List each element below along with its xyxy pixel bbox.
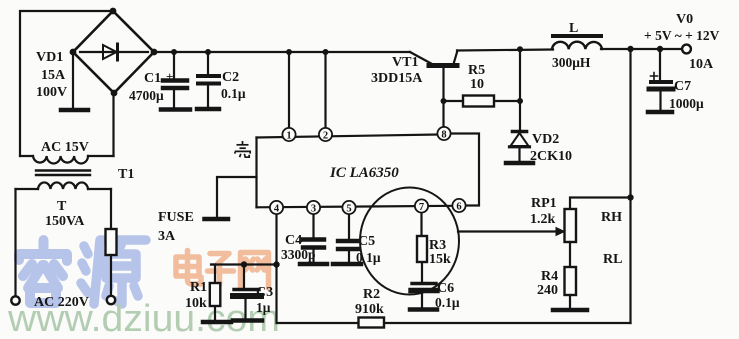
IC U1 box top edge	[257, 135, 438, 138]
svg-text:300μH: 300μH	[552, 55, 591, 70]
potentiometer RP1 body	[565, 209, 577, 242]
capacitor C1 plates	[163, 81, 187, 89]
svg-text:3A: 3A	[158, 229, 176, 244]
node pin1 tap	[286, 49, 292, 55]
transformer T1 core lines	[36, 171, 90, 176]
wire R1/C3 node to pin4 line	[211, 263, 277, 265]
watermark char ZI (salmon)	[208, 254, 234, 287]
node C2 tap	[205, 49, 211, 55]
node R5 right lower junction	[517, 98, 523, 104]
ground below bridge	[61, 108, 88, 113]
svg-text:VT1: VT1	[392, 55, 418, 70]
resistor R3 body	[417, 236, 427, 262]
node C1 tap	[171, 49, 177, 55]
transistor VT1 base bar	[429, 63, 457, 68]
svg-text:T: T	[57, 199, 67, 214]
svg-text:3300p: 3300p	[281, 247, 316, 262]
svg-text:240: 240	[537, 283, 558, 298]
resistor R1 body	[210, 283, 221, 306]
resistor R4 body	[565, 267, 577, 295]
svg-text:C5: C5	[358, 234, 375, 249]
wire pin 4 down to bottom rail	[275, 214, 277, 323]
node base R5 junction	[441, 98, 447, 104]
svg-text:150VA: 150VA	[45, 214, 85, 229]
svg-text:4700μ: 4700μ	[129, 88, 164, 103]
diode inside bridge VD1	[80, 44, 148, 60]
svg-text:L: L	[569, 21, 578, 36]
capacitor C4 leads	[312, 214, 314, 262]
node pin4 wire junction	[273, 261, 279, 267]
capacitor C7 plates	[651, 80, 671, 84]
fuse body in AC line	[106, 229, 117, 255]
svg-text:R1: R1	[190, 280, 207, 295]
svg-text:+ 5V ~ + 12V: + 5V ~ + 12V	[644, 28, 720, 43]
svg-text:T1: T1	[118, 167, 134, 182]
capacitor C6 plates	[412, 282, 436, 285]
svg-text:FUSE: FUSE	[158, 210, 194, 225]
wire bridge bottom vertex to secondary right	[112, 93, 114, 156]
node bridge left vertex	[70, 49, 77, 56]
svg-text:10: 10	[470, 77, 484, 92]
transformer T1 secondary winding	[33, 156, 88, 164]
transistor VT1 collector lead	[410, 52, 432, 64]
WATERMARK	[7, 240, 280, 339]
resistor R2 body	[359, 318, 385, 328]
svg-text:1000μ: 1000μ	[669, 96, 704, 111]
svg-text:R3: R3	[429, 238, 446, 253]
svg-text:0.1μ: 0.1μ	[435, 295, 460, 310]
ground below C5	[333, 262, 361, 267]
svg-text:10k: 10k	[185, 296, 207, 311]
svg-text:3: 3	[311, 203, 316, 214]
bridge rectifier VD1 diamond	[73, 11, 154, 93]
wire main rail right of VT1	[457, 49, 686, 51]
ground below C3	[233, 318, 262, 323]
terminal AC left	[11, 296, 19, 304]
node bridge right vertex	[151, 49, 158, 56]
svg-text:15k: 15k	[429, 252, 451, 267]
resistor R5 body	[463, 96, 494, 107]
wire primary left lead	[14, 189, 16, 296]
wire RP1 to R4	[569, 242, 571, 267]
node C7 tap	[657, 46, 663, 52]
capacitor C2 plates	[198, 76, 219, 84]
ground below C1	[161, 107, 190, 112]
svg-text:2: 2	[323, 130, 328, 141]
RP1 wiper arrow	[556, 228, 565, 236]
resistor R1 leads	[212, 265, 215, 321]
svg-text:AC 220V: AC 220V	[34, 295, 89, 310]
wire bridge left vertex to ground	[72, 52, 74, 108]
ground below VD2	[506, 161, 533, 166]
capacitor C1 leads	[173, 52, 175, 107]
watermark char RONG (blue)	[19, 240, 67, 303]
svg-text:VD1: VD1	[36, 50, 63, 65]
pin 3 circle	[307, 201, 320, 214]
svg-text:IC LA6350: IC LA6350	[329, 165, 399, 181]
node R5 right rail tap	[517, 46, 523, 52]
node L output junction to feedback	[627, 46, 633, 52]
capacitor C2 leads	[207, 52, 209, 107]
wire pin 8 to box right edge	[451, 134, 480, 206]
svg-text:7: 7	[419, 202, 424, 213]
wire top-left loop from bridge top to transformer secondary	[20, 11, 113, 156]
svg-text:RP1: RP1	[531, 196, 557, 211]
ground below C4	[300, 262, 327, 267]
resistor R3 leads	[420, 213, 423, 282]
svg-text:3DD15A: 3DD15A	[371, 71, 423, 86]
svg-text:C4: C4	[285, 233, 302, 248]
node pin2 tap	[323, 49, 329, 55]
inductor L top bar	[553, 34, 601, 38]
IC U1 box bottom edge	[257, 206, 453, 208]
pin 8 circle	[437, 127, 450, 140]
capacitor C5 leads	[348, 214, 350, 262]
svg-text:4: 4	[274, 203, 280, 214]
ground below C6	[410, 307, 437, 312]
wire rail down to VD2	[519, 49, 521, 130]
pin 1 circle	[282, 128, 295, 141]
transformer T1 primary stubs	[16, 188, 112, 190]
svg-text:1.2k: 1.2k	[530, 212, 556, 227]
wire main positive rail left section	[154, 51, 410, 53]
wire case pin to ground	[217, 177, 257, 216]
svg-text:C7: C7	[674, 79, 691, 94]
pin 4 circle	[270, 201, 283, 214]
svg-text:8: 8	[441, 129, 446, 140]
wire RP1 wiper from regulator circle	[458, 230, 556, 232]
ground below C7	[648, 110, 672, 115]
wire rail to pin 2	[324, 52, 326, 128]
svg-text:RL: RL	[603, 252, 622, 267]
pin 6 circle	[452, 199, 465, 212]
wire feedback right vertical	[629, 49, 631, 323]
capacitor C7 leads	[659, 49, 662, 110]
zener diode VD2	[510, 132, 530, 162]
svg-text:15A: 15A	[41, 68, 66, 83]
ground below C2	[197, 107, 219, 112]
terminal AC right	[107, 296, 115, 304]
svg-text:RH: RH	[601, 210, 622, 225]
wire bottom rail	[277, 322, 631, 324]
node C3 tap	[241, 261, 247, 267]
svg-text:R4: R4	[541, 269, 558, 284]
svg-text:C2: C2	[222, 70, 239, 85]
transformer T1 primary winding	[38, 182, 88, 189]
capacitor C4 plates	[303, 240, 324, 248]
wire elbow to RP1 top	[570, 198, 631, 210]
wire rail to pin 1	[288, 52, 290, 128]
svg-text:0.1μ: 0.1μ	[221, 86, 246, 101]
svg-text:R2: R2	[363, 287, 380, 302]
svg-text:910k: 910k	[355, 302, 384, 317]
svg-text:0 1μ: 0 1μ	[356, 250, 381, 265]
capacitor C5 plates	[338, 241, 359, 249]
transistor VT1 emitter lead	[454, 51, 458, 65]
wire VT1 base down to pin 8	[442, 66, 444, 128]
watermark char WANG (salmon)	[241, 253, 269, 289]
node feedback to RP1 elbow	[627, 194, 633, 200]
IC U1 box left edge	[255, 138, 257, 208]
wire R4 to ground	[569, 295, 571, 308]
svg-text:C6: C6	[437, 281, 454, 296]
node bridge top vertex	[110, 8, 117, 15]
pin 7 circle	[415, 199, 428, 212]
svg-text:1: 1	[286, 130, 291, 141]
resistor R5 leads	[444, 100, 521, 102]
svg-text:V0: V0	[676, 12, 693, 27]
regulator internal circle	[360, 188, 459, 295]
svg-text:C3: C3	[256, 285, 273, 300]
ground below R4	[553, 308, 587, 313]
watermark char DIAN (salmon)	[176, 251, 201, 285]
svg-text:10A: 10A	[689, 57, 714, 72]
capacitor C6 lead to ground	[421, 293, 423, 307]
svg-text:1μ: 1μ	[256, 300, 271, 315]
svg-text:C1: C1	[144, 71, 161, 86]
svg-text:5: 5	[346, 203, 351, 214]
capacitor C3 lead top	[244, 265, 246, 319]
pin 2 circle	[319, 128, 332, 141]
capacitor C3 plates	[234, 288, 259, 291]
transformer T1 secondary stubs	[20, 155, 114, 157]
svg-text:R5: R5	[468, 63, 485, 78]
inductor L winding	[552, 42, 602, 50]
ground below R1	[203, 320, 231, 325]
svg-text:AC 15V: AC 15V	[41, 140, 89, 155]
wire primary right lead to fuse	[110, 189, 112, 296]
capacitor C7 plus mark	[651, 73, 658, 80]
svg-text:100V: 100V	[36, 85, 67, 100]
pin 5 circle	[342, 201, 355, 214]
node bridge bottom vertex	[111, 90, 118, 97]
ground for case/fuse	[205, 217, 229, 222]
svg-text:2CK10: 2CK10	[530, 149, 572, 164]
label case (ke) hand-drawn	[235, 141, 250, 157]
svg-text:6: 6	[456, 201, 461, 212]
svg-text:VD2: VD2	[532, 132, 559, 147]
watermark char YUAN (blue)	[81, 240, 146, 304]
output terminal V0	[682, 45, 691, 54]
svg-text:+: +	[166, 69, 173, 84]
